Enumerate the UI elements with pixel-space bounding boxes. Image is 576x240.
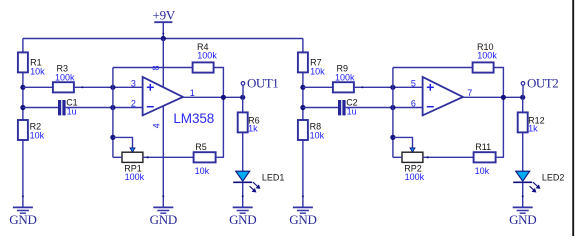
ground under LED1 — [229, 195, 256, 227]
svg-text:OUT1: OUT1 — [247, 76, 278, 91]
junction divider/+input row — [300, 85, 305, 90]
svg-text:1: 1 — [190, 88, 195, 98]
junction output/OUT2 — [520, 95, 525, 100]
wire OUT1 stub — [242, 85, 244, 97]
wire feedback column — [112, 68, 114, 158]
svg-text:R11: R11 — [475, 142, 491, 152]
wire RP to R5 — [143, 156, 194, 158]
svg-text:100k: 100k — [197, 51, 217, 61]
pin end dot RP — [427, 156, 429, 158]
junction wiper branch — [110, 135, 115, 140]
wire R3 to +input — [74, 86, 143, 88]
svg-text:100k: 100k — [405, 172, 425, 182]
potentiometer RP2 — [402, 148, 423, 162]
svg-text:10k: 10k — [30, 130, 45, 140]
wire +9V rail — [23, 38, 303, 40]
resistor R7 — [298, 52, 308, 72]
wire output to R12 — [522, 97, 524, 112]
op-amp LM358 (OUT2) — [423, 77, 463, 116]
resistor R2 — [18, 120, 28, 140]
svg-text:10k: 10k — [475, 166, 490, 176]
resistor R9 — [333, 82, 354, 92]
wire R5 to output column — [216, 97, 224, 157]
wire R9 to +input — [354, 86, 423, 88]
wire feedback column — [392, 68, 394, 158]
svg-text:100k: 100k — [125, 172, 145, 182]
wire divider node — [302, 72, 304, 120]
svg-text:2: 2 — [131, 99, 136, 109]
junction feedback/output — [501, 95, 506, 100]
resistor R4 — [193, 62, 214, 72]
terminal OUT2 — [521, 82, 525, 86]
power +9V — [152, 8, 175, 23]
wire output to R6 — [242, 97, 244, 112]
svg-text:4: 4 — [152, 123, 162, 128]
junction wiper branch — [390, 135, 395, 140]
wire R12 to LED2 — [522, 132, 524, 171]
ground under pin 4 — [150, 195, 177, 227]
svg-text:3: 3 — [131, 78, 136, 88]
svg-text:10k: 10k — [30, 66, 45, 76]
pin end dot R9 — [361, 86, 363, 88]
junction -input/RP column — [110, 105, 115, 110]
junction divider/-input row — [20, 105, 25, 110]
wire node to C2 — [303, 107, 338, 109]
junction +input/feedback — [390, 85, 395, 90]
wire C2 to -input — [346, 107, 423, 109]
ground under R8 — [289, 195, 316, 227]
svg-text:10k: 10k — [310, 66, 325, 76]
resistor R10 — [473, 62, 494, 72]
svg-text:1k: 1k — [248, 124, 258, 134]
resistor R8 — [298, 120, 308, 140]
resistor R1 — [18, 52, 28, 72]
resistor R3 — [53, 82, 74, 92]
wire RP to R11 — [423, 156, 474, 158]
wire divider node — [22, 72, 24, 120]
svg-text:R5: R5 — [195, 142, 207, 152]
svg-text:GND: GND — [9, 212, 36, 227]
wire C1 to -input — [66, 107, 143, 109]
wire RP left lead — [113, 156, 122, 158]
wire pin 4 to ground — [162, 106, 164, 206]
resistor R6 — [238, 112, 248, 132]
wire LED2 to ground — [522, 182, 524, 206]
svg-text:LM358: LM358 — [173, 111, 214, 126]
capacitor C1 — [58, 100, 66, 115]
wire node to C1 — [23, 107, 58, 109]
svg-text:100k: 100k — [477, 51, 497, 61]
svg-text:LED1: LED1 — [262, 172, 285, 182]
svg-text:10k: 10k — [310, 130, 325, 140]
svg-text:100k: 100k — [55, 73, 75, 83]
resistor R12 — [518, 112, 528, 132]
wire feedback row to R10 — [393, 67, 473, 69]
wire wiper branch — [393, 137, 413, 149]
svg-text:GND: GND — [150, 212, 177, 227]
ground under R2 — [9, 195, 36, 227]
junction divider/-input row — [300, 105, 305, 110]
wire feedback row to R4 — [113, 67, 193, 69]
op-amp LM358 (OUT1) — [143, 77, 183, 116]
wire wiper branch — [113, 137, 133, 149]
wire RP left lead — [393, 156, 402, 158]
terminal OUT1 — [241, 82, 245, 86]
wire R2 to ground — [22, 140, 24, 207]
wire +9V bar to rail — [162, 22, 164, 38]
wire OUT2 stub — [522, 85, 524, 97]
wire R6 to LED1 — [242, 132, 244, 171]
svg-text:GND: GND — [509, 212, 536, 227]
pin end dot R3 — [81, 86, 83, 88]
junction output/OUT1 — [240, 95, 245, 100]
wire R4 to output column — [214, 68, 224, 98]
wire R7 top lead — [302, 39, 304, 53]
svg-text:10k: 10k — [195, 166, 210, 176]
wire R8 to ground — [302, 140, 304, 207]
LED LED2 — [513, 171, 539, 192]
wire LED1 to ground — [242, 182, 244, 206]
wire R10 to output column — [494, 68, 504, 98]
ground under LED2 — [509, 195, 536, 227]
wire pin 8 (V+) — [162, 39, 164, 88]
wire R1 top lead — [22, 39, 24, 53]
svg-text:GND: GND — [289, 212, 316, 227]
wire output row — [183, 96, 243, 98]
resistor R11 — [474, 152, 496, 162]
svg-text:8: 8 — [151, 65, 161, 70]
pin end dot RP — [147, 156, 149, 158]
svg-text:7: 7 — [467, 88, 472, 98]
junction +input/feedback — [110, 85, 115, 90]
svg-text:100k: 100k — [335, 73, 355, 83]
junction rail/pin8 — [161, 36, 166, 41]
svg-text:5: 5 — [411, 78, 416, 88]
resistor R5 — [194, 152, 216, 162]
svg-text:GND: GND — [229, 212, 256, 227]
capacitor C2 — [338, 100, 346, 115]
svg-text:OUT2: OUT2 — [527, 76, 558, 91]
potentiometer RP1 — [122, 148, 143, 162]
wire node to R3 — [23, 86, 53, 88]
junction -input/RP column — [390, 105, 395, 110]
wire node to R9 — [303, 86, 333, 88]
LED LED1 — [233, 171, 259, 192]
wire R11 to output column — [496, 97, 504, 157]
junction divider/+input row — [20, 85, 25, 90]
junction feedback/output — [221, 95, 226, 100]
svg-text:+9V: +9V — [152, 8, 175, 23]
svg-text:1k: 1k — [528, 124, 538, 134]
wire output row — [463, 96, 523, 98]
svg-text:6: 6 — [411, 99, 416, 109]
svg-text:LED2: LED2 — [542, 172, 565, 182]
